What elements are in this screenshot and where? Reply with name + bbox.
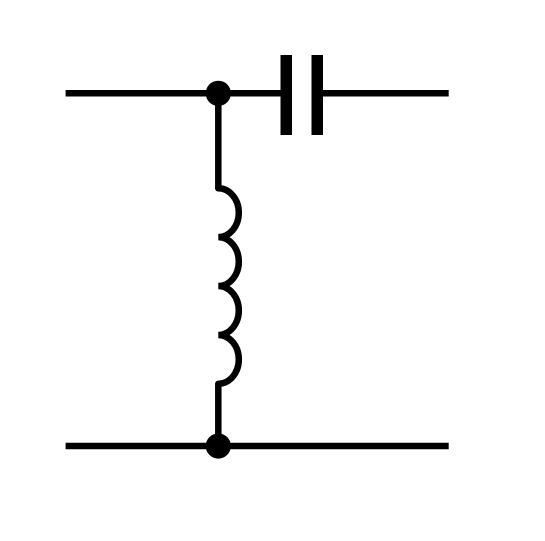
capacitor C1 right plate xyxy=(312,55,324,135)
wire bottom segment xyxy=(66,443,449,450)
node bottom junction xyxy=(206,433,231,458)
wire vertical from inductor to bottom junction xyxy=(215,384,222,447)
inductor L1 xyxy=(218,188,239,384)
node top junction xyxy=(206,81,231,106)
wire vertical from top junction to inductor xyxy=(215,93,222,189)
wire top-right segment xyxy=(323,90,449,97)
wire top-left segment xyxy=(66,90,281,97)
capacitor C1 left plate xyxy=(281,55,293,135)
